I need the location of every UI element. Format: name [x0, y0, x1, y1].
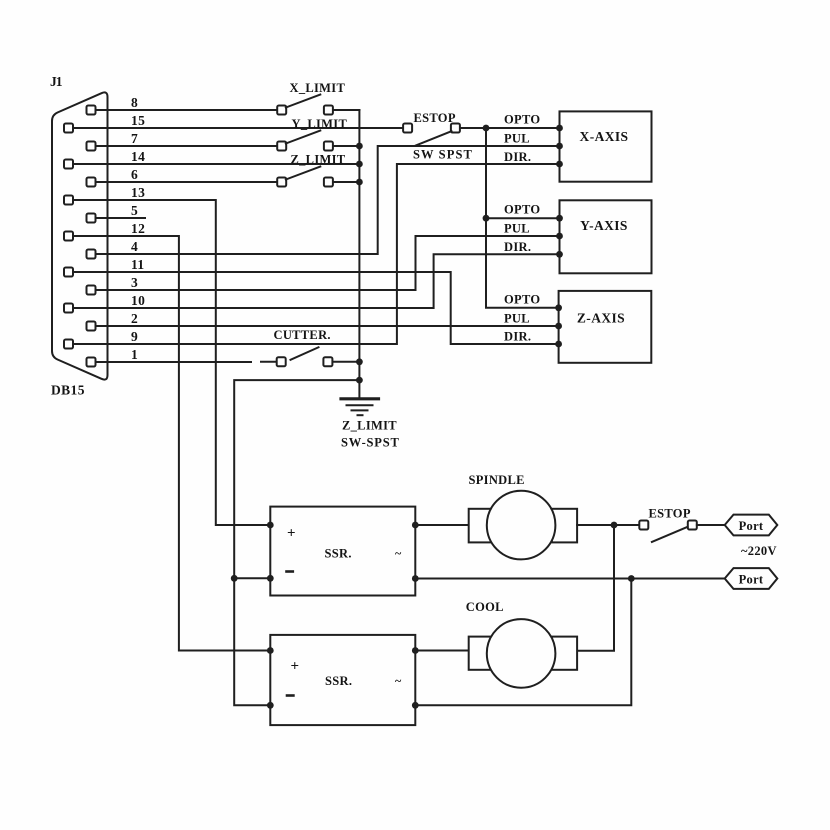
svg-text:+: +	[287, 525, 296, 541]
pin 13	[64, 196, 73, 205]
junction Z PUL pin	[555, 323, 562, 330]
wire pin3 to Y-axis PUL	[96, 236, 560, 290]
svg-text:9: 9	[131, 329, 138, 344]
svg-text:DIR.: DIR.	[504, 330, 531, 344]
junction AC return	[628, 575, 635, 582]
svg-text:COOL: COOL	[466, 600, 504, 614]
junction Z DIR pin	[555, 341, 562, 348]
motor COOL	[469, 637, 493, 670]
wire cool motor right riser	[577, 525, 614, 651]
junction SSR2 minus pin	[267, 702, 274, 709]
svg-text:Port: Port	[739, 572, 764, 586]
svg-text:OPTO: OPTO	[504, 113, 540, 127]
pin 10	[64, 304, 73, 313]
junction Y DIR pin	[556, 251, 563, 258]
pin 6	[87, 178, 96, 187]
svg-text:SW SPST: SW SPST	[413, 148, 473, 162]
junction bus/SSR minus feed	[356, 377, 363, 384]
pin 4	[87, 250, 96, 259]
connector Port1	[725, 515, 778, 536]
ground bus vertical	[358, 110, 360, 398]
svg-text:SW-SPST: SW-SPST	[341, 436, 400, 450]
wire pin10 to Y-axis DIR	[73, 254, 559, 308]
pin 8	[87, 106, 96, 115]
junction SSR1 plus pin	[267, 522, 274, 529]
wire Y_LIMIT to bus	[333, 145, 359, 147]
ground symbol	[341, 397, 379, 400]
OPTO bus vertical to Z-axis	[486, 128, 559, 308]
svg-text:~220V: ~220V	[741, 544, 777, 558]
svg-text:1: 1	[131, 347, 138, 362]
svg-text:Y_LIMIT: Y_LIMIT	[292, 117, 348, 131]
junction SSR2 plus pin	[267, 647, 274, 654]
wire Y-axis OPTO	[486, 217, 560, 219]
wire SSR1 out to spindle motor	[415, 524, 468, 526]
svg-text:SSR.: SSR.	[325, 674, 352, 688]
wire ESTOP to X-axis OPTO	[460, 127, 560, 129]
svg-text:SSR.: SSR.	[325, 547, 352, 561]
svg-text:~: ~	[395, 674, 402, 688]
wire pin8 to X_LIMIT	[96, 109, 278, 111]
junction bus/pin14	[356, 161, 363, 168]
svg-text:15: 15	[131, 113, 145, 128]
wire pin2 to Z-axis PUL	[96, 325, 559, 327]
box Y-AXIS driver	[560, 200, 652, 273]
junction OPTO bus / Y OPTO	[483, 215, 490, 222]
svg-text:6: 6	[131, 167, 138, 182]
pin 5	[87, 214, 96, 223]
junction OPTO bus top	[483, 125, 490, 132]
svg-text:SPINDLE: SPINDLE	[469, 473, 525, 487]
wire SSR1 minus	[234, 577, 270, 579]
wire SSR2 out to cool motor	[415, 650, 468, 652]
svg-text:PUL: PUL	[504, 132, 530, 146]
pin 9	[64, 340, 73, 349]
svg-text:DB15: DB15	[51, 383, 85, 398]
svg-text:DIR.: DIR.	[504, 240, 531, 254]
wire pin1 to CUTTER (with dash gap)	[96, 361, 251, 363]
junction SSR2 out bottom	[412, 702, 419, 709]
svg-text:12: 12	[131, 221, 145, 236]
svg-text:Z_LIMIT: Z_LIMIT	[291, 153, 346, 167]
box SSR1 (spindle relay)	[270, 507, 415, 596]
wire pin4 to X-axis PUL	[96, 146, 560, 254]
svg-text:8: 8	[131, 95, 138, 110]
svg-text:X_LIMIT: X_LIMIT	[290, 81, 346, 95]
wire pin5 stub	[96, 217, 145, 219]
svg-text:DIR.: DIR.	[504, 150, 531, 164]
wire pin6 to Z_LIMIT	[96, 181, 278, 183]
svg-text:X-AXIS: X-AXIS	[580, 129, 629, 144]
junction spindle/cool tie	[611, 522, 618, 529]
wire pin15 to ESTOP	[73, 127, 403, 129]
junction bus/Y_LIMIT	[356, 143, 363, 150]
junction Y PUL pin	[556, 233, 563, 240]
junction bus/CUTTER	[356, 358, 363, 365]
wire Z_LIMIT to bus	[333, 181, 359, 183]
junction X PUL pin	[556, 143, 563, 150]
junction Z OPTO pin	[555, 304, 562, 311]
wire SSR2 bottom to AC return	[415, 579, 631, 706]
wire ESTOP to Port1	[697, 524, 725, 526]
connector Port2	[725, 568, 778, 589]
svg-text:PUL: PUL	[504, 222, 530, 236]
svg-text:13: 13	[131, 185, 145, 200]
junction SSR1 out top	[412, 522, 419, 529]
svg-text:2: 2	[131, 311, 138, 326]
junction SSR1 out bottom	[412, 575, 419, 582]
wire pin11 to Z-axis DIR	[73, 272, 558, 344]
wire pin14 to bus	[73, 163, 359, 165]
wire ground bus to SSR minus rail	[234, 380, 359, 705]
wire spindle motor to ESTOP	[577, 524, 639, 526]
junction X OPTO pin	[556, 125, 563, 132]
pin 2	[87, 322, 96, 331]
wire pin7 to Y_LIMIT	[96, 145, 278, 147]
svg-text:11: 11	[131, 257, 145, 272]
svg-text:Y-AXIS: Y-AXIS	[580, 218, 628, 233]
pin 14	[64, 160, 73, 169]
svg-text:4: 4	[131, 239, 138, 254]
pin 15	[64, 124, 73, 133]
junction X DIR pin	[556, 161, 563, 168]
svg-text:CUTTER.: CUTTER.	[274, 328, 331, 342]
svg-text:Z-AXIS: Z-AXIS	[577, 311, 625, 326]
wire pin9 to X-axis DIR	[73, 164, 559, 344]
wire pin12 to SSR2 plus	[73, 236, 270, 651]
pin 1	[87, 358, 96, 367]
box SSR2 (cool relay)	[270, 635, 415, 725]
wire SSR1 bottom to Port2	[415, 578, 724, 580]
svg-text:Port: Port	[739, 519, 764, 533]
pin 7	[87, 142, 96, 151]
pin 11	[64, 268, 73, 277]
box Z-AXIS driver	[559, 291, 652, 363]
junction bus/Z_LIMIT	[356, 179, 363, 186]
pin 3	[87, 286, 96, 295]
svg-text:OPTO: OPTO	[504, 203, 540, 217]
svg-text:ESTOP: ESTOP	[414, 111, 456, 125]
junction Y OPTO pin	[556, 215, 563, 222]
svg-text:10: 10	[131, 293, 145, 308]
svg-text:+: +	[291, 658, 300, 674]
svg-text:Z_LIMIT: Z_LIMIT	[342, 419, 397, 433]
svg-text:14: 14	[131, 149, 145, 164]
junction SSR1 minus tap	[231, 575, 238, 582]
svg-text:~: ~	[395, 546, 402, 560]
motor SPINDLE	[469, 509, 493, 543]
svg-text:3: 3	[131, 275, 138, 290]
svg-text:5: 5	[131, 203, 138, 218]
wire X_LIMIT to bus top	[333, 109, 359, 111]
wire CUTTER to bus	[333, 361, 360, 363]
svg-text:OPTO: OPTO	[504, 293, 540, 307]
pin 12	[64, 232, 73, 241]
junction SSR1 minus pin	[267, 575, 274, 582]
wire pin13 to SSR1 plus	[73, 200, 270, 525]
svg-text:ESTOP: ESTOP	[649, 507, 691, 521]
svg-text:J1: J1	[50, 74, 63, 89]
connector J1 DB15 shell	[52, 92, 108, 379]
junction SSR2 out top	[412, 647, 419, 654]
svg-text:PUL: PUL	[504, 312, 530, 326]
box X-AXIS driver	[560, 111, 652, 181]
svg-text:7: 7	[131, 131, 138, 146]
